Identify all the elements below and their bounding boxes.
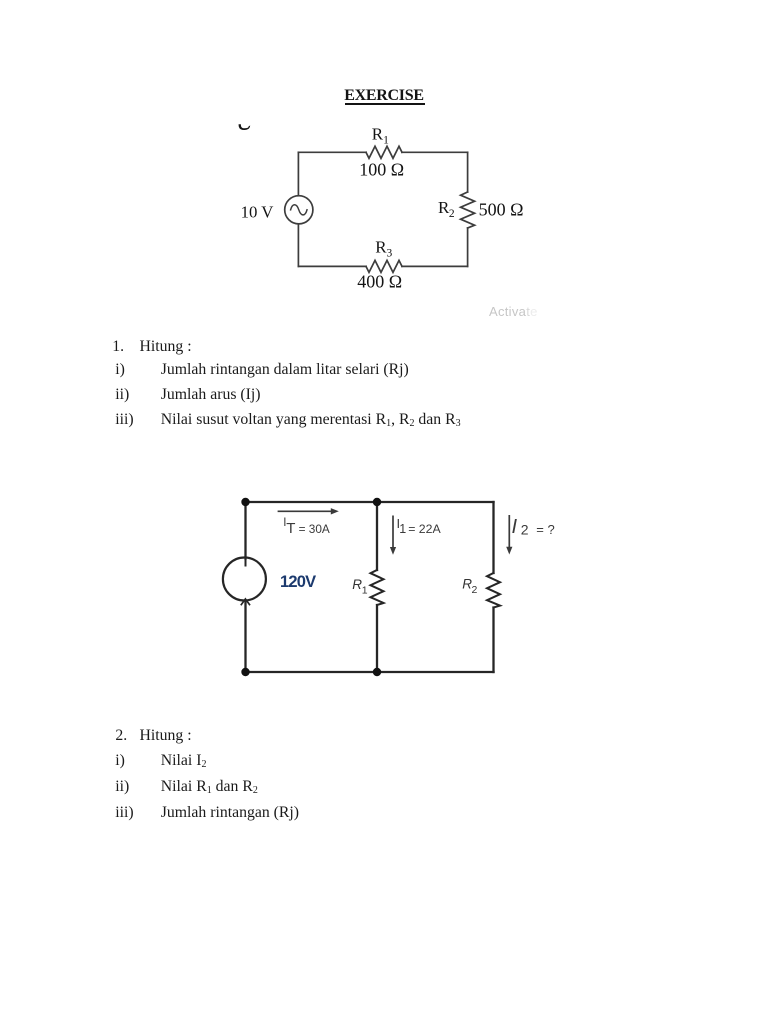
wire right upper — [492, 502, 494, 573]
I2 arrow — [508, 515, 510, 549]
Activate watermark fragment — [489, 305, 538, 318]
svg-text:1: 1 — [399, 522, 406, 536]
node dot top-middle — [373, 498, 381, 506]
list block 1 — [112, 339, 124, 355]
svg-text:= ?: = ? — [536, 522, 554, 537]
wire top-left segment — [298, 151, 366, 153]
svg-text:10 V: 10 V — [241, 202, 274, 221]
title EXERCISE — [0, 88, 768, 104]
svg-text:2: 2 — [521, 521, 529, 537]
wire bottom bus — [246, 671, 494, 673]
wire right lower — [467, 228, 469, 266]
node dot top-left — [241, 498, 249, 506]
wire bottom-right segment — [402, 265, 468, 267]
wire bottom-left segment — [298, 265, 366, 267]
svg-text:T: T — [286, 520, 295, 537]
wire left lower — [297, 224, 299, 267]
title underline — [345, 103, 425, 105]
IT arrow — [278, 510, 332, 512]
wire left lower — [244, 601, 246, 673]
CIRCUIT 2 — [200, 480, 570, 692]
svg-text:1: 1 — [362, 585, 368, 597]
CIRCUIT 1 — [230, 108, 540, 300]
wire left upper — [297, 152, 299, 195]
wire middle lower — [376, 605, 378, 672]
resistor R1 zigzag — [366, 146, 402, 158]
svg-text:120V: 120V — [280, 573, 316, 591]
source arrow chevron — [241, 599, 249, 605]
svg-text:= 22A: = 22A — [408, 522, 441, 536]
AC source sine symbol — [291, 205, 307, 215]
svg-text:= 30A: = 30A — [299, 522, 330, 536]
resistor R1 zigzag — [371, 570, 384, 605]
resistor R2 zigzag — [487, 573, 500, 608]
wire left upper — [244, 502, 246, 559]
svg-text:100 Ω: 100 Ω — [359, 159, 404, 179]
I1 arrow — [392, 516, 394, 549]
svg-text:2: 2 — [472, 584, 478, 596]
svg-text:400 Ω: 400 Ω — [357, 271, 402, 291]
svg-text:500 Ω: 500 Ω — [479, 199, 524, 219]
source VS circle — [223, 558, 266, 601]
svg-text:I: I — [512, 516, 518, 538]
resistor R3 zigzag — [366, 260, 402, 272]
svg-text:R2: R2 — [438, 198, 455, 220]
source top stub — [245, 558, 247, 566]
resistor R2 zigzag — [461, 192, 475, 228]
list block 2 — [115, 728, 127, 744]
svg-text:R1: R1 — [372, 124, 389, 146]
wire top bus — [246, 501, 494, 503]
node dot bottom-middle — [373, 668, 381, 676]
wire middle upper — [376, 502, 378, 570]
wire right lower — [492, 608, 494, 673]
stray crop mark (bowl glyph) top-left of circuit 1 — [234, 118, 256, 134]
AC source V1 circle — [285, 196, 313, 224]
svg-text:R: R — [352, 577, 362, 592]
svg-text:R3: R3 — [375, 237, 392, 259]
node dot bottom-left — [241, 668, 249, 676]
wire right upper — [467, 152, 469, 192]
wire top-right segment — [402, 151, 468, 153]
